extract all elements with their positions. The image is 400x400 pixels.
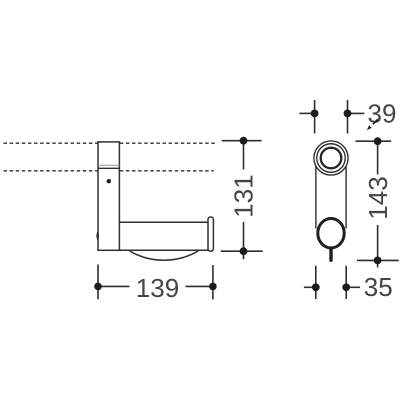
svg-text:131: 131 xyxy=(228,174,258,217)
svg-text:39: 39 xyxy=(368,99,397,129)
svg-text:143: 143 xyxy=(363,176,393,219)
svg-text:35: 35 xyxy=(364,272,393,302)
svg-text:139: 139 xyxy=(136,273,179,303)
